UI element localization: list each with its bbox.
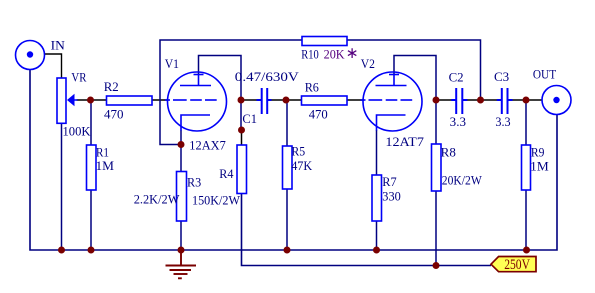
svg-text:100K: 100K: [63, 123, 92, 138]
wire node wiper down to R1: [90, 100, 92, 145]
svg-text:R4: R4: [219, 166, 234, 181]
resistor R2: [107, 96, 153, 105]
wire V2 cathode down to R7: [376, 130, 378, 175]
wire to R6 left: [286, 99, 302, 101]
svg-text:150K/2W: 150K/2W: [192, 192, 241, 207]
svg-text:470: 470: [104, 106, 124, 121]
junction node C1 / R5 / R6: [283, 97, 290, 104]
svg-text:V2: V2: [361, 56, 375, 71]
wire feedback right: R10 to C2/C3 node: [347, 40, 481, 100]
triode V2 envelope: [363, 72, 422, 131]
wire C1 left pin: [241, 99, 257, 101]
triode V2 cathode: [377, 115, 406, 131]
svg-text:1M: 1M: [96, 158, 115, 173]
wire wiper to R2: [77, 99, 107, 101]
triode V2 grid: [361, 99, 413, 101]
wire C3 right pin: [512, 99, 526, 101]
wire R8 top to C2 node: [435, 100, 437, 144]
triode V2 plate: [376, 75, 407, 86]
wire R4 top pin: [241, 130, 243, 145]
resistor R8: [432, 144, 442, 191]
svg-text:R7: R7: [382, 174, 397, 189]
svg-text:0.47/630V: 0.47/630V: [235, 69, 300, 84]
wire C2 right pin: [467, 99, 481, 101]
junction node V1 plate / C1 / R4: [238, 97, 245, 104]
wire R7 bottom to ground bus: [376, 221, 378, 250]
junction node R7 ground: [373, 247, 380, 254]
svg-text:R9: R9: [531, 144, 545, 159]
junction node wiper/R1: [87, 97, 94, 104]
wire C2 left pin: [436, 99, 452, 101]
svg-text:R5: R5: [291, 144, 305, 159]
triode V1 plate: [180, 75, 211, 86]
junction node C3 / R9 / OUT: [523, 97, 530, 104]
svg-text:IN: IN: [51, 37, 66, 52]
wire IN tap to VR top: [45, 54, 62, 78]
wire feedback left: V1 cathode to top rail: [160, 40, 302, 145]
svg-text:3.3: 3.3: [450, 114, 466, 129]
connector OUT: [542, 86, 571, 115]
triode V1 cathode: [181, 115, 210, 131]
svg-text:R8: R8: [441, 144, 456, 159]
wire R9 top: [525, 100, 527, 145]
wire V1 plate to C1 node: [199, 56, 242, 101]
wire C3 node to OUT: [526, 99, 543, 101]
svg-text:∗: ∗: [346, 45, 359, 62]
wire R1 bottom to ground bus: [90, 190, 92, 250]
svg-text:V1: V1: [165, 56, 179, 71]
wire R8 bottom crossing ground bus to 250V bus: [435, 191, 437, 266]
power flag 250V: [491, 257, 536, 272]
resistor R3: [177, 172, 187, 222]
svg-text:C1: C1: [242, 111, 257, 126]
svg-text:R3: R3: [187, 174, 201, 189]
resistor R10: [302, 37, 347, 46]
wire R2 to V1 grid: [152, 99, 169, 101]
wire C1 right pin: [271, 99, 286, 101]
wire R9 bottom to ground bus: [525, 190, 527, 250]
potentiometer VR body: [57, 78, 66, 123]
svg-text:20K: 20K: [324, 46, 346, 61]
svg-text:250V: 250V: [504, 257, 530, 273]
svg-text:12AT7: 12AT7: [385, 134, 424, 149]
wire R4 bottom to 250V bus: [242, 194, 492, 266]
svg-text:R10: R10: [301, 46, 319, 61]
svg-text:330: 330: [382, 188, 401, 203]
resistor R5: [283, 146, 293, 189]
junction node C2 / C3 / feedback: [477, 97, 484, 104]
svg-text:20K/2W: 20K/2W: [442, 172, 483, 187]
svg-text:VR: VR: [71, 69, 86, 84]
wire R5 top: [286, 100, 288, 146]
capacitor C1: [257, 88, 272, 114]
wire R5 bottom to ground bus: [286, 189, 288, 250]
wire ground bus from IN down-left corner to OUT: [30, 70, 557, 251]
svg-text:12AX7: 12AX7: [189, 137, 226, 152]
potentiometer VR wiper arrow: [67, 94, 75, 106]
resistor R4: [237, 145, 247, 194]
wire R3 bottom to ground: [180, 221, 182, 250]
junction node R4 pin: [238, 127, 245, 134]
junction node V1 cathode / feedback: [178, 141, 185, 148]
junction node R9 ground: [523, 247, 530, 254]
svg-text:R6: R6: [305, 79, 320, 94]
resistor R6: [302, 96, 348, 105]
junction node R3 ground: [178, 247, 185, 254]
junction node R1 ground: [88, 247, 95, 254]
connector IN: [16, 41, 45, 70]
svg-text:C3: C3: [494, 69, 509, 84]
ground: [166, 250, 197, 278]
svg-text:1M: 1M: [530, 158, 549, 173]
triode V1 grid: [165, 99, 217, 101]
wire C3 left pin: [481, 99, 498, 101]
capacitor C2: [451, 88, 467, 114]
capacitor C3: [497, 88, 513, 114]
resistor R7: [372, 175, 382, 221]
junction node R8 250V bus: [433, 262, 440, 269]
junction node V2 plate / C2 / R8: [433, 97, 440, 104]
resistor R1: [87, 145, 97, 190]
svg-text:470: 470: [309, 106, 328, 121]
wire R6 to V2 grid: [347, 99, 364, 101]
svg-text:R2: R2: [104, 79, 119, 94]
svg-text:3.3: 3.3: [495, 114, 510, 129]
wire C1 node down to R4 junction: [240, 100, 242, 130]
junction node R5 ground: [284, 247, 291, 254]
wire V1 cathode down through feedback node to R3: [180, 130, 182, 172]
svg-text:OUT: OUT: [533, 67, 556, 82]
wire V2 plate to C2 node: [394, 56, 436, 101]
svg-text:47K: 47K: [291, 158, 313, 173]
svg-text:C2: C2: [449, 69, 464, 84]
wire VR bottom to ground bus: [61, 123, 63, 250]
junction node VR ground: [58, 247, 65, 254]
triode V1 envelope: [168, 72, 227, 131]
svg-text:2.2K/2W: 2.2K/2W: [134, 191, 180, 206]
resistor R9: [522, 145, 531, 190]
